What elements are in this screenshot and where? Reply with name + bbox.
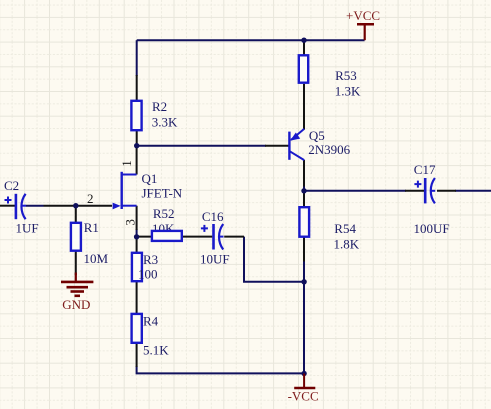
svg-text:100: 100	[138, 266, 158, 281]
svg-text:GND: GND	[62, 297, 90, 312]
svg-text:10M: 10M	[84, 251, 109, 266]
svg-text:100UF: 100UF	[414, 221, 450, 236]
svg-text:R53: R53	[335, 68, 357, 83]
svg-text:1: 1	[119, 160, 134, 167]
svg-text:R4: R4	[143, 313, 159, 328]
svg-text:JFET-N: JFET-N	[142, 186, 183, 201]
svg-text:-VCC: -VCC	[288, 388, 319, 403]
svg-text:3.3K: 3.3K	[152, 114, 178, 129]
svg-text:C2: C2	[4, 178, 19, 193]
svg-text:Q1: Q1	[142, 171, 158, 186]
svg-text:3: 3	[123, 219, 138, 226]
svg-text:10UF: 10UF	[200, 251, 230, 266]
svg-text:1.3K: 1.3K	[335, 84, 361, 99]
svg-text:R1: R1	[84, 220, 99, 235]
svg-text:R54: R54	[334, 221, 356, 236]
svg-text:1UF: 1UF	[16, 220, 39, 235]
svg-text:C17: C17	[414, 162, 436, 177]
svg-text:+VCC: +VCC	[346, 8, 380, 23]
svg-text:R3: R3	[143, 252, 158, 267]
svg-text:2: 2	[87, 191, 94, 206]
svg-text:1.8K: 1.8K	[334, 237, 360, 252]
svg-text:5.1K: 5.1K	[143, 342, 169, 357]
svg-text:C16: C16	[202, 209, 224, 224]
svg-text:R2: R2	[152, 99, 167, 114]
svg-text:2N3906: 2N3906	[308, 142, 350, 157]
svg-text:R52: R52	[153, 206, 175, 221]
